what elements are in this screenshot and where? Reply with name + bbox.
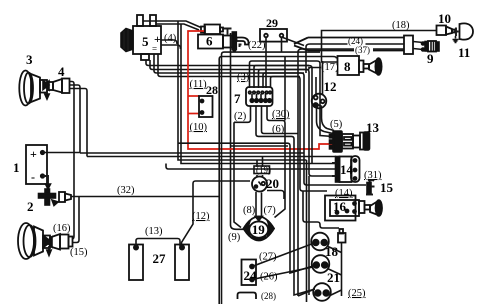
svg-text:(8): (8) (243, 205, 256, 216)
box below 24 (238, 293, 257, 300)
fuse feeds up: nest wires (250, 61, 334, 137)
svg-text:29: 29 (266, 16, 278, 30)
svg-text:3: 3 (26, 52, 33, 67)
dimmer connector 4 (48, 79, 70, 94)
svg-text:(12): (12) (192, 211, 210, 222)
svg-text:7: 7 (234, 91, 241, 106)
lamp interconnect wires (298, 247, 342, 297)
svg-text:+: + (30, 147, 37, 161)
lamp 18 (311, 233, 329, 251)
svg-text:20: 20 (266, 176, 279, 191)
svg-text:6: 6 (206, 34, 213, 49)
regulator 14 (332, 156, 360, 182)
vertical wire beside lamp column (308, 176, 310, 295)
label (37) (354, 46, 373, 54)
wire cartridge down right rail (341, 243, 343, 297)
fuel gauge sender 20 (252, 177, 267, 192)
wire (24) inside tube, exits left down (306, 44, 404, 73)
svg-text:(9): (9) (228, 232, 241, 243)
wire solenoid-top down left side (to band y160) (178, 21, 307, 160)
wire generator + joins vertical feeds (161, 40, 181, 49)
wire (26) from 24 to lamp (252, 267, 313, 280)
svg-text:13: 13 (366, 120, 380, 135)
svg-text:-: - (31, 170, 35, 184)
svg-text:(7): (7) (264, 205, 277, 216)
ignition coils 27 (129, 245, 189, 281)
wire (18) horn feed (322, 31, 437, 63)
svg-text:(2): (2) (234, 111, 247, 122)
plug after switch 2 (59, 192, 71, 202)
wire 29 right terminal to steering tube taper (282, 37, 305, 46)
svg-text:8: 8 (344, 59, 351, 74)
wire battery - down to switch 2 (43, 176, 49, 185)
svg-text:(10): (10) (190, 122, 208, 133)
wire (2) vertical to ammeter (234, 122, 241, 227)
svg-text:11: 11 (458, 45, 470, 60)
ignition switch 13 (330, 131, 370, 152)
relay 28 (199, 96, 213, 117)
wire lower headlight up (16) (73, 233, 75, 239)
svg-text:(5): (5) (330, 119, 343, 130)
svg-text:(25): (25) (348, 288, 366, 299)
lamp 21 (312, 255, 330, 273)
svg-text:4: 4 (58, 64, 65, 79)
svg-text:1: 1 (13, 160, 20, 175)
vertical bundle wire to ammeter (284, 57, 286, 121)
horn button 9 at tube end (413, 41, 439, 52)
wire (27) from 24 to lamp (252, 244, 313, 267)
vertical wire to rear lamps left rail (306, 160, 308, 302)
horn connector 10 (437, 26, 456, 36)
svg-text:19: 19 (252, 222, 265, 237)
wire from 20 right (267, 191, 284, 200)
wire from 4 to band y156.5 (70, 89, 88, 157)
svg-text:(32): (32) (117, 185, 135, 196)
wire 29 left terminal down to fuse box (265, 38, 267, 89)
band wire y153 (80, 152, 304, 154)
svg-text:(15): (15) (70, 247, 88, 258)
fuse cartridge 23 (338, 229, 346, 243)
wire lower headlight up (15) (73, 197, 80, 243)
svg-text:21: 21 (327, 270, 340, 285)
wire starter right down to band y146 (231, 33, 289, 229)
red stub to relay 28 upper (188, 95, 199, 97)
wire battery + to bundle (43, 152, 81, 154)
wire (37) inside tube, exits left down (298, 49, 404, 296)
svg-text:=: = (152, 44, 157, 54)
wires into 20 (257, 157, 263, 178)
svg-text:27: 27 (153, 251, 167, 266)
ignition feed 12 (312, 94, 327, 109)
svg-text:(28): (28) (261, 291, 276, 301)
wire y56.5 from 8 top-left across to rear feed (219, 57, 336, 305)
lower headlight (18, 223, 73, 259)
svg-text:(37): (37) (355, 45, 370, 55)
fuse box 7 (246, 87, 273, 106)
wire solenoid-top 2 down (to band y163.5) (181, 24, 336, 164)
band wire y156.5 (87, 156, 336, 158)
light switch 16 (325, 196, 382, 221)
lighting switch 8 (338, 56, 382, 75)
wire from 4 to band y153 (70, 85, 81, 153)
label (24) (348, 39, 366, 45)
svg-text:24: 24 (244, 268, 258, 283)
ammeter 19 (244, 216, 275, 240)
wire (17) from 8 to bundle (309, 68, 338, 70)
svg-text:2: 2 (27, 199, 34, 214)
svg-text:18: 18 (325, 244, 339, 259)
headlight 3 (19, 71, 49, 106)
svg-text:16: 16 (333, 199, 347, 214)
svg-text:(3): (3) (237, 72, 250, 83)
svg-text:(30): (30) (272, 109, 290, 120)
generator 5 (121, 15, 161, 60)
starter 6 (198, 25, 236, 52)
wire generator top to starter solenoid (143, 21, 201, 30)
wire 12 up stubs (316, 61, 323, 95)
svg-text:(14): (14) (335, 188, 353, 199)
flasher 24 (242, 260, 257, 286)
steering column tube 9 outline (294, 36, 413, 55)
leader from (31) to 15 (368, 179, 370, 182)
svg-text:10: 10 (438, 11, 451, 26)
fuse box bottom outlets (178, 106, 313, 273)
svg-text:(16): (16) (53, 223, 71, 234)
wire (32) (71, 196, 219, 198)
svg-text:(19): (19) (256, 165, 271, 175)
svg-text:(18): (18) (392, 20, 410, 31)
wire (5) from 12 down to 13 (317, 108, 335, 134)
red wire: starter to relay 28 and main red feed to 13 (188, 31, 333, 149)
lamp 25 (313, 283, 331, 301)
battery switch 2 (39, 189, 59, 206)
staircase wire to cartridge (303, 191, 339, 228)
svg-text:15: 15 (380, 180, 394, 195)
svg-text:(13): (13) (145, 226, 163, 237)
red stub to relay 28 lower (188, 113, 199, 115)
svg-text:(11): (11) (190, 79, 208, 90)
boxed label (19) (254, 166, 270, 174)
label (17) (321, 63, 337, 70)
wire (12) to coil 27 (182, 181, 251, 247)
battery 1 (26, 145, 47, 184)
svg-text:14: 14 (340, 162, 354, 177)
connector 15 (366, 180, 375, 194)
wire (13) between coils (136, 239, 180, 248)
svg-text:28: 28 (206, 83, 218, 97)
svg-text:(27): (27) (259, 252, 277, 263)
svg-text:9: 9 (427, 51, 434, 66)
svg-text:(17): (17) (321, 62, 339, 73)
wire generator bottom drops to horizontal harness (146, 54, 309, 77)
svg-text:(26): (26) (260, 272, 278, 283)
svg-text:5: 5 (142, 34, 149, 49)
ground for horn 11 (453, 36, 459, 43)
elbow pipe (22) at starter right (237, 38, 249, 45)
wire y52 from 18-drop across to rear feed (222, 52, 321, 304)
wire branch y169 to ammeter 19 left (166, 164, 335, 170)
junction box 29 (260, 29, 287, 42)
wire 29 right terminal down and to switch 8 top (281, 37, 283, 52)
horn 11 (453, 23, 474, 42)
wire from 4 to lower headlight (16) (70, 82, 75, 234)
wires from 19 top (256, 192, 262, 217)
svg-text:(4): (4) (164, 33, 177, 44)
svg-text:12: 12 (324, 79, 337, 94)
